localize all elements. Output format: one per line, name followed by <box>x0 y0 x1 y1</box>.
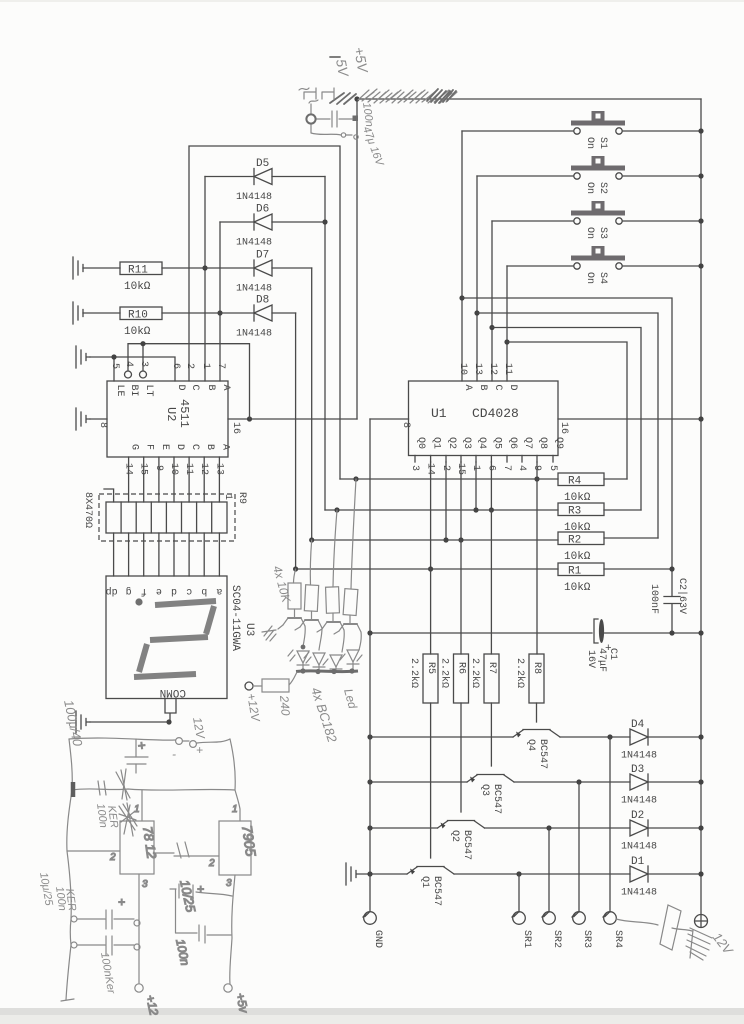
resistor R1 <box>558 563 675 594</box>
svg-text:COMN: COMN <box>160 686 186 698</box>
transistor Q2 BC547 <box>438 821 485 861</box>
pencil resistor 2 of 4x10K <box>304 585 318 612</box>
svg-text:R1: R1 <box>568 566 582 578</box>
terminal SR4 <box>603 737 623 948</box>
pin 16 stub U1 <box>558 418 701 420</box>
svg-text:R4: R4 <box>568 476 582 488</box>
capacitor C2 <box>648 578 688 633</box>
svg-text:Q1: Q1 <box>419 876 430 888</box>
terminal SR1 <box>512 874 532 948</box>
svg-text:b: b <box>201 585 207 597</box>
svg-text:SR1: SR1 <box>521 930 532 948</box>
svg-text:C: C <box>492 385 503 391</box>
svg-text:3: 3 <box>409 465 420 471</box>
svg-text:2.2kΩ: 2.2kΩ <box>514 658 526 688</box>
terminal +12V near display <box>244 682 263 723</box>
terminal 12V minus input <box>176 738 183 745</box>
pencil right vertical to 7905 <box>230 739 240 821</box>
svg-text:B: B <box>477 385 488 391</box>
svg-text:U1: U1 <box>431 406 447 421</box>
paper bottom scan band <box>0 1008 744 1015</box>
wires R9 to display <box>114 533 220 576</box>
pencil -5V label <box>330 57 352 79</box>
svg-text:D1: D1 <box>631 856 645 868</box>
resistor R4 <box>558 473 627 504</box>
svg-text:1N4148: 1N4148 <box>236 192 272 203</box>
wire S4 column to U1 pin11 <box>506 266 508 381</box>
svg-text:Q2: Q2 <box>449 830 460 842</box>
svg-text:2.2kΩ: 2.2kΩ <box>439 658 451 688</box>
svg-text:D7: D7 <box>256 250 269 262</box>
switch S1 <box>462 111 704 149</box>
wire D8 column down <box>295 313 297 569</box>
terminal 12V supply <box>695 915 708 928</box>
capacitor C1 <box>585 619 618 672</box>
svg-text:4: 4 <box>123 361 134 367</box>
wire +5V riser to U2 pin16 <box>356 99 358 419</box>
resistor R11 <box>73 257 254 293</box>
regulator 7905 <box>174 804 259 984</box>
wire +5V top rail <box>357 98 701 100</box>
svg-text:2: 2 <box>109 852 116 863</box>
pencil LED common bus <box>296 669 358 673</box>
decimal point <box>135 598 142 605</box>
svg-text:BI: BI <box>128 385 139 397</box>
svg-text:D: D <box>174 444 185 450</box>
wire U2 pin B riser to D5 <box>204 177 206 382</box>
svg-text:D8: D8 <box>256 295 269 307</box>
svg-text:4: 4 <box>516 465 527 471</box>
wire right supply bus <box>700 99 702 914</box>
svg-text:F: F <box>144 444 155 450</box>
svg-text:8X470Ω: 8X470Ω <box>82 492 93 528</box>
svg-text:5: 5 <box>547 465 558 471</box>
svg-text:16: 16 <box>230 422 241 434</box>
wire D5/D6 column down <box>324 177 326 511</box>
svg-text:BC547: BC547 <box>431 876 442 906</box>
svg-text:Q8: Q8 <box>537 437 548 449</box>
svg-text:dp: dp <box>106 585 118 597</box>
svg-text:Q4: Q4 <box>525 739 536 751</box>
resistor R8 <box>514 479 544 722</box>
terminal GND <box>363 912 383 948</box>
wire U2 pin C riser to matrix frame <box>189 146 340 479</box>
pencil transistor 4 <box>334 615 361 650</box>
svg-text:C1: C1 <box>607 648 618 660</box>
pencil cap 10/25 at 7812 output <box>170 879 232 933</box>
svg-text:Q2: Q2 <box>446 437 457 449</box>
pencil PSU top rail <box>69 738 230 743</box>
svg-text:Q1: Q1 <box>431 437 442 449</box>
terminal +5 output <box>224 984 251 1015</box>
svg-text:BC547: BC547 <box>461 830 472 860</box>
svg-text:BC547: BC547 <box>537 739 548 769</box>
wire Q2 collector row <box>485 827 631 829</box>
svg-text:1N4148: 1N4148 <box>621 796 657 807</box>
svg-text:D3: D3 <box>631 764 644 776</box>
svg-text:1N4148: 1N4148 <box>236 329 272 340</box>
svg-text:SR4: SR4 <box>612 930 623 948</box>
svg-text:C: C <box>189 444 200 450</box>
svg-text:6: 6 <box>170 363 181 369</box>
svg-text:R10: R10 <box>128 310 148 322</box>
pencil cap branch 2 <box>77 936 134 955</box>
svg-text:Q3: Q3 <box>461 437 472 449</box>
svg-text:1N4148: 1N4148 <box>621 751 657 762</box>
U1 bottom pin stubs Q0..Q9 <box>415 456 553 463</box>
terminal +12 output <box>135 919 161 1017</box>
resistor R2 <box>558 532 658 563</box>
pencil cap 100u/40 plus <box>125 739 150 773</box>
svg-text:R6: R6 <box>456 662 467 674</box>
svg-text:Q7: Q7 <box>522 437 533 449</box>
svg-text:13: 13 <box>472 363 483 375</box>
pencil PSU left vertical <box>66 739 72 1000</box>
svg-text:1: 1 <box>134 804 140 815</box>
pencil connector sketch top <box>299 88 352 137</box>
svg-text:LE: LE <box>114 385 125 397</box>
diode D2 <box>621 810 704 853</box>
svg-text:7: 7 <box>501 465 512 471</box>
wire row to R4 <box>340 478 558 480</box>
pencil LED 4 <box>340 650 362 671</box>
pencil transistor 1 <box>278 609 305 647</box>
pencil resistor 4 of 4x10K <box>343 589 358 616</box>
svg-text:Q9: Q9 <box>553 437 564 449</box>
svg-text:R5: R5 <box>425 662 436 674</box>
svg-text:100nF: 100nF <box>648 584 659 614</box>
transistor Q1 BC547 <box>407 867 454 907</box>
pencil cap 100u plate dark <box>71 782 76 797</box>
wire GND-C1 rail <box>370 632 592 634</box>
wire Q4 emitter row <box>370 736 513 738</box>
svg-text:3: 3 <box>226 878 232 889</box>
svg-text:47μF: 47μF <box>596 648 607 672</box>
diode D1 <box>621 856 704 899</box>
switch S4 <box>507 246 704 284</box>
svg-text:R3: R3 <box>568 506 581 518</box>
wire net B cross to R2 riser <box>477 313 658 538</box>
svg-text:e: e <box>156 585 162 596</box>
wire Q2 emitter row <box>370 827 438 829</box>
svg-text:Q6: Q6 <box>507 437 518 449</box>
U1 output labels Q0..Q9 <box>415 437 564 449</box>
pencil resistor 3 of 4x10K <box>326 587 340 613</box>
svg-text:3: 3 <box>142 879 148 890</box>
svg-text:4511: 4511 <box>177 399 191 428</box>
pin 8 stub U2 with ground <box>90 418 107 420</box>
svg-text:1: 1 <box>222 494 233 500</box>
ground at Q1 row <box>346 863 370 885</box>
svg-text:1N4148: 1N4148 <box>236 238 272 249</box>
svg-text:B: B <box>204 444 215 450</box>
pencil cap at 7905 pin2 <box>177 842 189 858</box>
svg-text:16: 16 <box>558 422 569 434</box>
svg-text:11: 11 <box>502 363 513 375</box>
resistor R6 <box>439 540 469 812</box>
pencil resistor 1 of 4x10K <box>288 583 301 609</box>
wire net D cross to R4 riser <box>507 342 627 479</box>
wire Q4 collector row <box>560 736 630 738</box>
pencil drop wires to driver resistors <box>294 479 357 589</box>
wire Q5 output down to R7 row <box>490 462 492 510</box>
wire Q1 collector row <box>454 873 630 875</box>
IC U2 4511 <box>76 361 241 457</box>
U1 bottom pin numbers <box>409 463 558 475</box>
wire Q1 emitter row <box>370 873 407 875</box>
svg-text:a: a <box>216 585 222 596</box>
wire D7 column down <box>311 268 313 540</box>
svg-text:c: c <box>186 585 192 596</box>
svg-text:C2|63V: C2|63V <box>676 578 688 614</box>
diode D3 <box>621 764 704 807</box>
wire row to R3 <box>325 509 558 511</box>
svg-text:Q3: Q3 <box>479 784 490 796</box>
transistor Q3 BC547 <box>467 775 514 815</box>
svg-text:Q4: Q4 <box>476 437 487 449</box>
svg-text:240: 240 <box>277 694 293 716</box>
pencil transistor 2 <box>295 611 322 650</box>
pencil transistor 3 <box>317 613 344 652</box>
svg-text:9: 9 <box>153 465 164 471</box>
svg-text:+: + <box>118 895 125 909</box>
pencil hatching over +5V rail <box>358 89 457 103</box>
svg-text:10kΩ: 10kΩ <box>564 551 591 563</box>
wire U2 pin A riser to D6 <box>219 222 221 381</box>
svg-text:SC04-11GWA: SC04-11GWA <box>229 585 241 651</box>
pencil resistor 240 <box>253 672 297 692</box>
svg-text:On: On <box>584 227 595 239</box>
wire Q2 output down <box>445 462 447 540</box>
svg-text:10: 10 <box>168 463 179 475</box>
svg-text:+: + <box>197 882 204 896</box>
svg-text:On: On <box>584 182 595 194</box>
svg-text:10kΩ: 10kΩ <box>124 326 151 338</box>
diode D4 <box>621 719 704 762</box>
svg-text:1N4148: 1N4148 <box>236 284 272 295</box>
wire Q3 emitter row <box>370 781 467 783</box>
wires U2 outputs to R9 <box>129 457 220 502</box>
svg-text:-: - <box>172 747 176 761</box>
switch S3 <box>492 201 704 239</box>
wire Q1 output down to R5 row <box>430 462 432 569</box>
svg-text:A: A <box>220 385 231 391</box>
transistor Q4 BC547 <box>513 730 560 770</box>
svg-text:S2: S2 <box>597 182 608 194</box>
svg-text:15: 15 <box>138 463 149 475</box>
svg-text:+: + <box>196 743 203 757</box>
resistor R7 <box>469 510 499 766</box>
terminal SR2 <box>542 828 562 948</box>
pencil junction blob <box>301 645 306 650</box>
wire Q3 output down to R6 row <box>460 462 462 540</box>
svg-text:U2: U2 <box>164 407 178 421</box>
wire GND bus <box>369 419 371 912</box>
svg-text:C: C <box>189 385 200 391</box>
svg-text:R9: R9 <box>236 492 247 504</box>
pencil cap plates near left vertical <box>98 781 106 795</box>
svg-text:S4: S4 <box>597 272 608 284</box>
svg-text:On: On <box>584 272 595 284</box>
svg-text:f: f <box>141 585 147 597</box>
svg-text:U3: U3 <box>243 623 255 636</box>
U2 bottom pin labels GFEDCBA <box>129 444 231 450</box>
diode D6 <box>220 204 325 249</box>
svg-text:1N4148: 1N4148 <box>621 888 657 899</box>
inversion bubble pin3 <box>140 371 147 378</box>
terminal 12V plus input <box>190 741 197 748</box>
svg-text:2.2kΩ: 2.2kΩ <box>408 658 420 688</box>
wire Q8 output down to R8 row <box>536 462 538 479</box>
regulator 7812 <box>67 790 160 919</box>
resistor network R9 8x470 <box>82 489 247 541</box>
svg-text:10: 10 <box>457 363 468 375</box>
svg-text:D: D <box>507 385 518 391</box>
svg-text:R8: R8 <box>531 662 542 674</box>
svg-text:D2: D2 <box>631 810 644 822</box>
wire row to R2 <box>312 539 558 541</box>
wire S3 column to U1 pin12 <box>491 221 493 381</box>
pencil cap branch 1 <box>77 895 134 929</box>
ground COMN <box>76 711 90 733</box>
diode D7 <box>236 250 312 295</box>
U2 bottom pin numbers <box>123 463 225 475</box>
wire S1 column to U1 pin10 <box>461 131 463 381</box>
svg-text:D4: D4 <box>631 719 645 731</box>
7-segment display U3 <box>106 576 255 699</box>
pencil ground at driver 1 <box>262 626 276 641</box>
digit segments showing 2 <box>134 601 216 677</box>
svg-text:1N4148: 1N4148 <box>621 842 657 853</box>
wire net A cross to R1 riser <box>462 298 672 596</box>
wire COMN to ground <box>165 699 176 723</box>
svg-text:2.2kΩ: 2.2kΩ <box>469 658 481 688</box>
svg-text:S3: S3 <box>597 227 608 239</box>
pin 8 stub U1 <box>370 418 409 420</box>
svg-text:10kΩ: 10kΩ <box>564 582 591 594</box>
svg-text:Q5: Q5 <box>491 437 502 449</box>
svg-text:R2: R2 <box>568 535 581 547</box>
diode D5 <box>205 158 325 203</box>
svg-text:10kΩ: 10kΩ <box>564 492 591 504</box>
wire row to R1 <box>296 568 558 570</box>
svg-text:G: G <box>129 444 140 450</box>
svg-text:D5: D5 <box>256 158 269 170</box>
svg-text:8: 8 <box>97 422 108 428</box>
resistor R3 <box>558 503 641 534</box>
svg-text:S1: S1 <box>597 137 608 149</box>
wire net C cross to R3 riser <box>492 328 641 511</box>
pencil scribbles heavy <box>119 803 137 836</box>
svg-text:LT: LT <box>143 385 154 397</box>
ground U2 top-left <box>76 346 90 368</box>
wire Q4 output down <box>475 462 477 510</box>
wire U2 pin16 run <box>228 418 357 420</box>
pencil LED 2 <box>304 652 325 671</box>
resistor R5 <box>408 569 438 858</box>
svg-text:B: B <box>205 385 216 391</box>
terminal SR3 <box>572 782 592 948</box>
switch S2 <box>477 156 704 194</box>
svg-text:BC547: BC547 <box>491 784 502 814</box>
svg-text:12: 12 <box>487 363 498 375</box>
svg-text:Q0: Q0 <box>415 437 426 449</box>
svg-text:SR2: SR2 <box>551 930 562 948</box>
IC U1 CD4028 <box>370 363 704 456</box>
svg-text:D6: D6 <box>256 204 269 216</box>
svg-text:SR3: SR3 <box>581 930 592 948</box>
svg-text:g: g <box>126 585 132 596</box>
pencil scribble at 12V terminal <box>686 928 712 960</box>
svg-text:11: 11 <box>183 463 194 475</box>
svg-text:CD4028: CD4028 <box>472 406 519 421</box>
pencil cap 100n at 7905 output <box>173 925 231 967</box>
diode D8 <box>236 295 296 340</box>
resistor R10 <box>73 302 254 338</box>
svg-text:3: 3 <box>138 361 149 367</box>
pencil LED 3 <box>323 655 342 671</box>
svg-text:13: 13 <box>213 463 224 475</box>
svg-text:2: 2 <box>208 858 215 869</box>
wire S2 column to U1 pin13 <box>476 176 478 381</box>
wire BI/LT net riser <box>128 344 250 419</box>
pencil LED 1 <box>288 650 309 670</box>
svg-text:E: E <box>159 444 170 450</box>
dp cell top stub <box>104 489 114 502</box>
svg-text:10kΩ: 10kΩ <box>124 281 151 293</box>
pencil mid rail <box>72 789 235 790</box>
svg-text:A: A <box>219 444 230 450</box>
svg-text:d: d <box>171 585 177 597</box>
pencil flag at SR4 <box>616 905 692 950</box>
svg-text:D: D <box>175 385 186 391</box>
svg-text:On: On <box>584 137 595 149</box>
display pin labels (upside down) <box>106 585 223 597</box>
svg-text:GND: GND <box>372 930 383 948</box>
svg-text:1: 1 <box>232 804 238 815</box>
svg-text:8: 8 <box>400 422 411 428</box>
wire Q3 collector row <box>514 781 630 783</box>
svg-text:16V: 16V <box>585 650 596 668</box>
inversion bubble pin4 <box>125 371 132 378</box>
svg-text:A: A <box>462 385 473 391</box>
svg-text:14: 14 <box>123 463 134 475</box>
svg-text:5: 5 <box>109 363 120 369</box>
wire U2 ground rail <box>90 357 175 381</box>
svg-text:R7: R7 <box>486 662 497 674</box>
pencil junction rings left vertical <box>71 916 77 922</box>
svg-text:12: 12 <box>198 463 209 475</box>
svg-text:R11: R11 <box>128 265 148 277</box>
